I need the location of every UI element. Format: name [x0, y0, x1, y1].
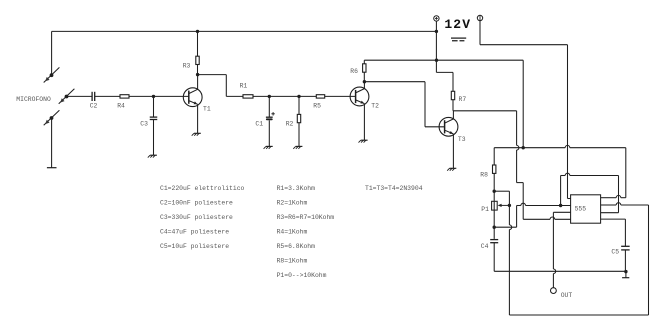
ground T1 — [194, 132, 201, 134]
microphone jack pin top — [44, 67, 60, 82]
wire C1 to ground — [268, 120, 270, 146]
resistor R4 — [120, 95, 129, 98]
wire T1 collector — [197, 75, 199, 90]
svg-text:OUT: OUT — [561, 292, 573, 299]
wire supply to R7 — [436, 71, 453, 73]
svg-text:R1: R1 — [240, 83, 248, 90]
wire second rail — [363, 60, 365, 64]
ground T2 — [361, 139, 368, 141]
node R8 P1 — [493, 190, 496, 193]
resistor R5 — [316, 95, 324, 98]
node rail R3 — [196, 30, 199, 33]
IC 555 — [571, 195, 601, 223]
svg-text:R7: R7 — [459, 96, 467, 103]
wire branch down to 555 trigger — [516, 111, 518, 146]
battery negative terminal — [477, 15, 482, 20]
svg-text:P1=0-->10Kohm: P1=0-->10Kohm — [277, 272, 327, 279]
wire bottom common — [494, 270, 626, 272]
wire mic to C2 — [67, 95, 93, 97]
terminator stub below C5 — [625, 272, 627, 278]
wire to 555 pin left4 — [523, 218, 550, 220]
svg-text:R2=1Kohm: R2=1Kohm — [277, 200, 308, 207]
transistor T3 — [439, 117, 458, 136]
svg-text:R4=1Kohm: R4=1Kohm — [277, 229, 308, 236]
wire Vcc distribution horizontal — [494, 147, 565, 149]
resistor R6 — [363, 64, 366, 72]
wire R1 to T2 base — [253, 95, 356, 97]
svg-text:T1=T3=T4=2N3904: T1=T3=T4=2N3904 — [365, 185, 423, 192]
wire P1 wiper loop top — [494, 190, 509, 192]
wire 555 pin right4 to C5 — [601, 218, 626, 220]
DC symbol — [451, 37, 466, 39]
node C3 junction — [152, 95, 155, 98]
terminator bar mic — [47, 167, 57, 169]
wire T1 emitter to ground — [197, 104, 199, 133]
wire C3 drop — [153, 96, 155, 117]
microphone jack pin bottom — [44, 110, 60, 125]
svg-text:C3: C3 — [140, 121, 148, 128]
node C1 junction — [268, 95, 271, 98]
wire 555 pin right2 to bottom right rail — [601, 204, 617, 206]
svg-text:R4: R4 — [117, 103, 125, 110]
svg-text:555: 555 — [575, 205, 587, 212]
svg-text:R1=3.3Kohm: R1=3.3Kohm — [277, 185, 316, 192]
capacitor C2 — [91, 92, 93, 101]
wire T2 emitter to ground — [363, 104, 365, 141]
node P1 bottom — [493, 226, 496, 229]
wire T2 collector to T3 base — [364, 81, 425, 83]
node R2 junction — [297, 95, 300, 98]
resistor R2 — [297, 114, 300, 122]
wire P1 bottom to 555 pin left2 — [494, 226, 516, 228]
wire bottom right rail — [509, 314, 648, 316]
node rail2 supply — [435, 59, 438, 62]
svg-text:12V: 12V — [444, 17, 471, 32]
svg-text:C4=47uF poliestere: C4=47uF poliestere — [160, 229, 229, 236]
svg-text:R3: R3 — [183, 62, 191, 69]
wire R2 drop — [298, 96, 300, 114]
ground T3 — [450, 167, 457, 169]
wire C5 bottom — [624, 250, 626, 271]
capacitor C1 electrolytic — [266, 116, 273, 118]
wire R3 to collector node — [197, 65, 199, 75]
node rail1 supply — [435, 30, 438, 33]
capacitor C5 — [621, 245, 630, 247]
capacitor C4 — [493, 227, 495, 239]
node P1 wiper — [508, 204, 511, 207]
svg-text:C5: C5 — [611, 249, 619, 256]
wire mic bottom to terminator — [51, 118, 53, 168]
wire top supply rail — [52, 30, 437, 32]
OUT terminal — [551, 288, 557, 294]
wire R2 to ground — [298, 123, 300, 147]
svg-text:R6: R6 — [350, 68, 358, 75]
resistor R8 — [493, 165, 496, 173]
node C5 bottom — [624, 270, 627, 273]
svg-text:R3=R6=R7=10Kohm: R3=R6=R7=10Kohm — [277, 214, 335, 221]
wire 12V+ down — [435, 21, 437, 72]
wire R8 top — [493, 148, 495, 165]
wire left drop to mic — [51, 31, 53, 75]
wire R6 to rail2 — [363, 72, 365, 82]
node T2 collector — [363, 80, 366, 83]
svg-text:C1: C1 — [255, 120, 263, 127]
wire collector branch right — [453, 110, 517, 112]
transistor T1 — [183, 88, 202, 107]
wire R7 to T3 collector — [452, 100, 454, 111]
wire T3 emitter to ground — [452, 134, 454, 168]
svg-text:R2: R2 — [286, 120, 294, 127]
svg-text:MICROFONO: MICROFONO — [16, 96, 51, 103]
svg-text:R8=1Kohm: R8=1Kohm — [277, 258, 308, 265]
svg-text:C5=10uF poliestere: C5=10uF poliestere — [160, 243, 229, 250]
svg-text:T2: T2 — [371, 103, 379, 110]
wire collector node to R1 — [198, 74, 227, 76]
wire wiper down to bottom rail — [508, 205, 510, 225]
wire rail to R3 — [197, 31, 199, 56]
svg-text:R8: R8 — [480, 171, 488, 178]
wire pin left2 up and over to pin right3 — [560, 176, 562, 206]
transistor T2 — [350, 87, 369, 106]
battery positive terminal — [434, 16, 439, 21]
resistor R1 — [243, 95, 253, 98]
svg-text:C2: C2 — [90, 103, 98, 110]
svg-text:R5=6.8Kohm: R5=6.8Kohm — [277, 243, 316, 250]
ground C1 — [266, 145, 273, 147]
wire R8 to P1 — [493, 173, 495, 191]
P1 wiper arrow — [501, 204, 510, 206]
svg-text:C4: C4 — [481, 243, 489, 250]
node 555 pin left2 branch — [559, 204, 562, 207]
microphone jack pin middle — [59, 89, 75, 104]
wire C2 to R4 — [95, 95, 120, 97]
wire Vcc to 555 pin right1 — [625, 148, 627, 198]
ground C3 — [150, 154, 157, 156]
wire R4 to T1 base with node — [129, 95, 189, 97]
svg-text:T3: T3 — [458, 136, 466, 143]
wire rail2 right drop — [522, 60, 524, 148]
svg-text:C1=220uF elettrolitico: C1=220uF elettrolitico — [160, 185, 245, 192]
svg-text:T1: T1 — [203, 105, 211, 112]
ground R2 — [296, 145, 303, 147]
potentiometer P1 — [493, 191, 495, 201]
wire 555 out pin left3 to OUT — [553, 211, 570, 213]
wire T2 collector — [363, 82, 365, 89]
wire 555 pin left1 — [568, 198, 571, 200]
svg-text:C3=330uF poliestere: C3=330uF poliestere — [160, 214, 233, 221]
resistor R7 — [451, 91, 454, 99]
svg-text:P1: P1 — [481, 206, 489, 213]
wire 12V- down — [479, 21, 481, 45]
node Vcc rail2 drop — [522, 146, 525, 149]
svg-text:C2=100nF poliestere: C2=100nF poliestere — [160, 200, 233, 207]
wire C3 to ground — [153, 120, 155, 156]
wire T3 collector — [452, 111, 454, 119]
svg-text:R5: R5 — [313, 103, 321, 110]
wire C1 drop — [268, 96, 270, 117]
node T1 collector — [196, 73, 199, 76]
capacitor C3 — [150, 116, 158, 118]
